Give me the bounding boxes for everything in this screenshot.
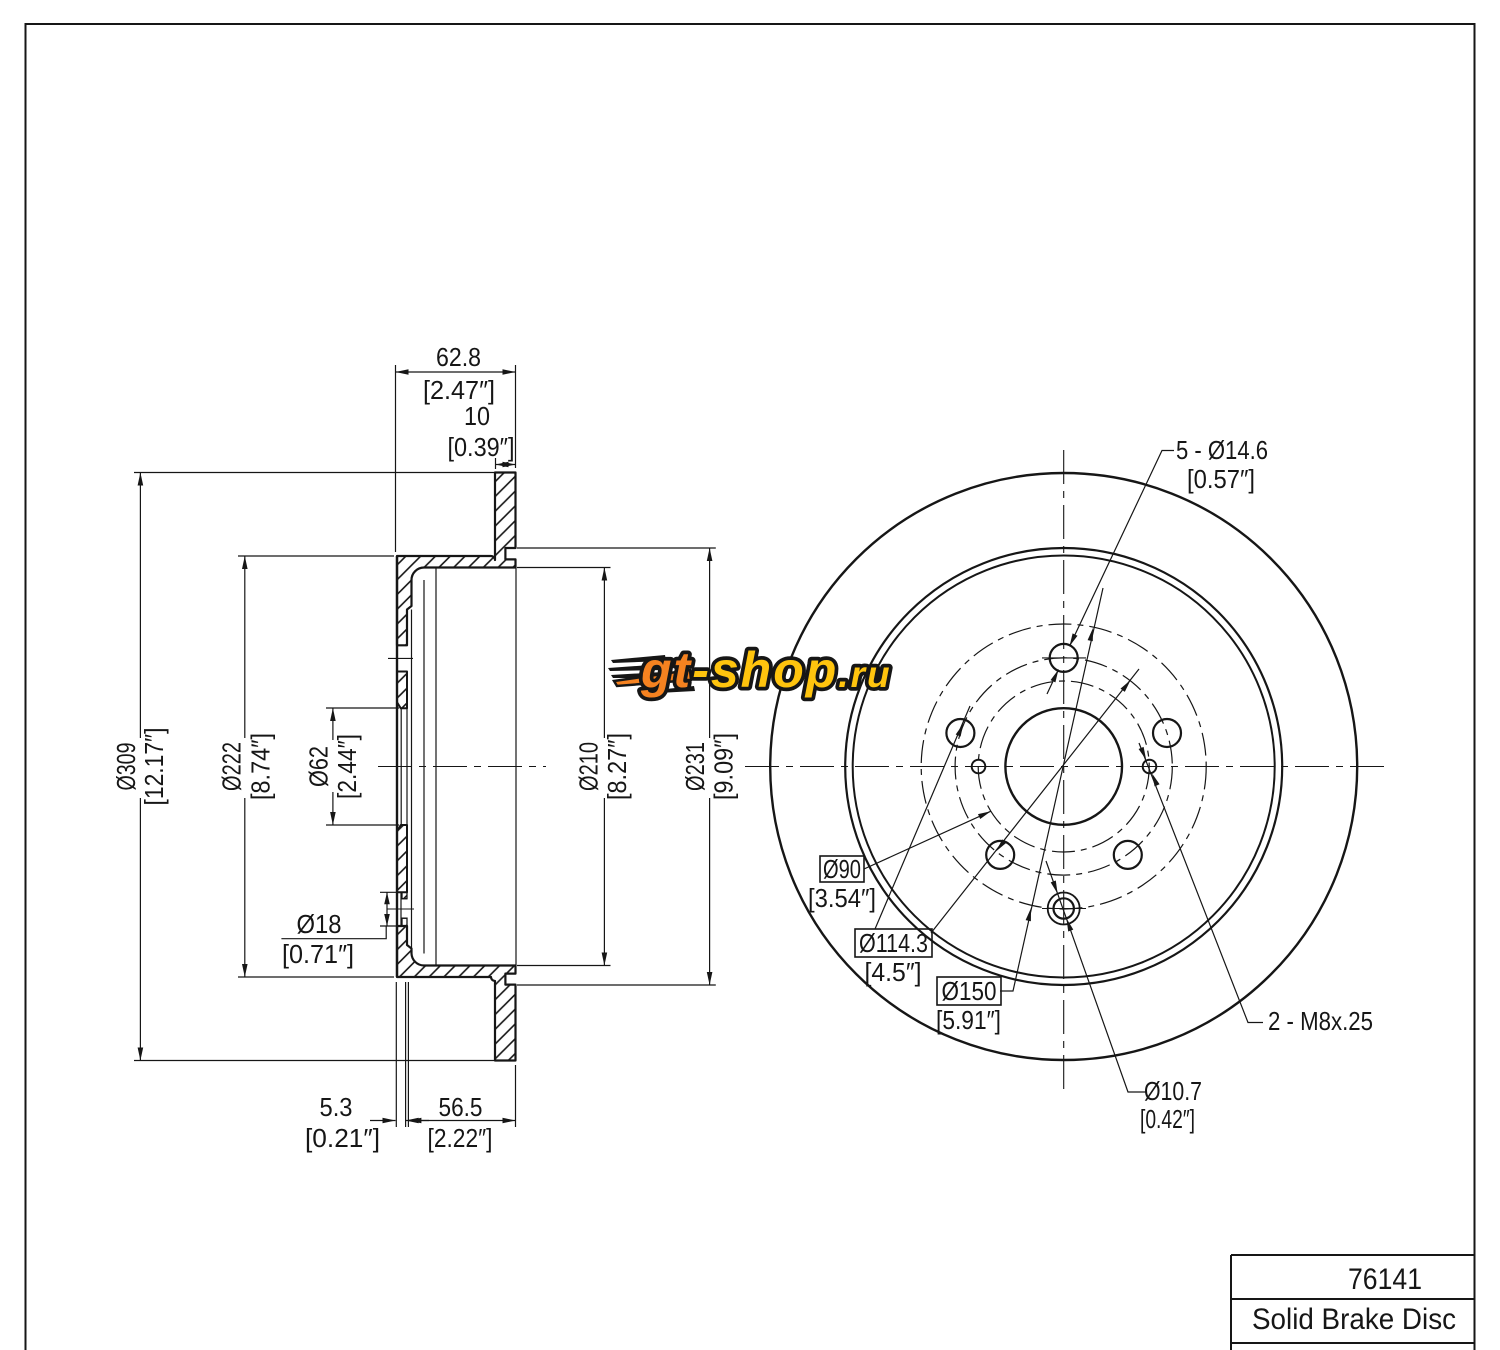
svg-text:Ø18: Ø18 [297, 909, 342, 939]
svg-text:[2.44″]: [2.44″] [332, 734, 362, 799]
svg-text:[5.91″]: [5.91″] [936, 1005, 1001, 1035]
svg-text:5.3: 5.3 [320, 1092, 353, 1122]
svg-text:[0.39″]: [0.39″] [448, 432, 515, 462]
svg-text:Ø90: Ø90 [823, 854, 861, 884]
svg-text:Ø309: Ø309 [111, 743, 141, 791]
svg-text:[9.09″]: [9.09″] [709, 733, 739, 800]
svg-text:Ø150: Ø150 [942, 976, 997, 1006]
svg-text:[0.42″]: [0.42″] [1140, 1104, 1195, 1134]
svg-text:[12.17″]: [12.17″] [139, 728, 169, 806]
svg-text:[0.57″]: [0.57″] [1187, 464, 1255, 494]
svg-text:10: 10 [464, 401, 490, 431]
svg-text:Ø10.7: Ø10.7 [1144, 1076, 1202, 1106]
svg-text:[8.27″]: [8.27″] [602, 733, 632, 800]
svg-text:5 - Ø14.6: 5 - Ø14.6 [1176, 435, 1268, 465]
svg-text:76141: 76141 [1348, 1263, 1422, 1296]
svg-text:2 - M8x.25: 2 - M8x.25 [1268, 1006, 1373, 1036]
svg-text:Ø231: Ø231 [680, 742, 710, 791]
svg-text:62.8: 62.8 [436, 342, 481, 372]
svg-text:Ø62: Ø62 [304, 746, 334, 787]
svg-text:Ø114.3: Ø114.3 [859, 928, 928, 958]
svg-text:[4.5″]: [4.5″] [865, 957, 922, 987]
svg-text:Ø222: Ø222 [217, 742, 247, 791]
svg-text:Solid Brake Disc: Solid Brake Disc [1252, 1303, 1456, 1336]
svg-text:[3.54″]: [3.54″] [808, 883, 876, 913]
svg-text:[0.71″]: [0.71″] [282, 939, 354, 969]
svg-text:[0.21″]: [0.21″] [305, 1123, 380, 1153]
svg-text:56.5: 56.5 [439, 1092, 483, 1122]
svg-text:[8.74″]: [8.74″] [246, 733, 276, 800]
svg-text:Ø210: Ø210 [574, 742, 604, 791]
svg-text:[2.22″]: [2.22″] [428, 1123, 493, 1153]
